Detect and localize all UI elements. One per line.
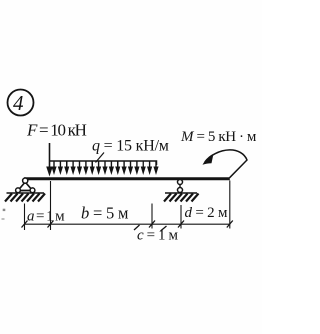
svg-text:4: 4 xyxy=(13,91,24,115)
svg-text:M = 5 кН · м: M = 5 кН · м xyxy=(180,129,257,145)
svg-text:c = 1 м: c = 1 м xyxy=(137,228,178,244)
svg-text:q = 15 кН/м: q = 15 кН/м xyxy=(92,138,169,155)
svg-text:d = 2 м: d = 2 м xyxy=(185,205,229,221)
svg-text:a = 1 м: a = 1 м xyxy=(27,209,65,225)
svg-text:F = 10 кН: F = 10 кН xyxy=(26,121,87,140)
svg-text:b = 5 м: b = 5 м xyxy=(81,204,129,223)
